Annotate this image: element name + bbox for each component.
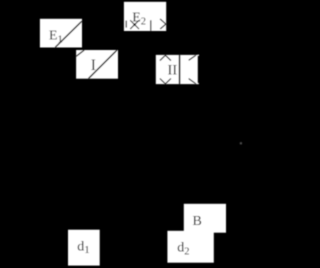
svg-text:B: B [193,214,202,229]
ray stub in I [76,50,84,56]
screen E2 box [124,2,166,31]
speck top right of II [198,55,199,56]
faint speck [240,142,242,144]
up arrowhead right II [189,55,196,60]
ray through I [88,50,117,79]
plate II box [156,55,198,84]
svg-text:II: II [168,63,178,79]
speck bottom right of II [197,83,198,84]
detector B box [184,204,226,233]
ray through E1 [55,21,82,47]
detector d1 box [68,230,100,266]
polarization cross in E2 [130,20,139,29]
plate I box [76,50,118,79]
ray arrowhead in E2 [160,19,166,29]
up arrowhead left II [160,55,171,60]
down arrowhead right II [189,79,196,84]
svg-text:I: I [91,57,96,74]
polarization tick 2 in E2 [150,20,152,31]
down arrowhead left II [160,79,171,84]
cross center dot in E2 [133,23,135,25]
polarization tick 1 in E2 [125,21,127,28]
screen E1 box [40,19,82,48]
detector d2 box [167,231,213,263]
divider line in II [179,55,181,84]
